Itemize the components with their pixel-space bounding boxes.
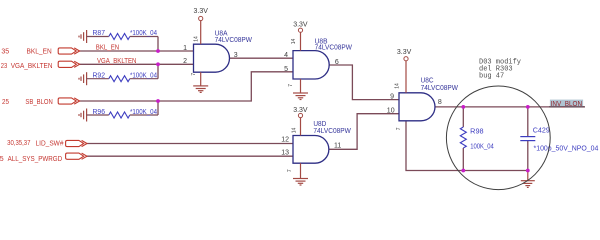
- port VGA_BKLTEN: [58, 61, 79, 67]
- port LID_SW#: [66, 140, 87, 146]
- svg-text:INV_BLON: INV_BLON: [551, 101, 583, 108]
- wire SB_BLON net to U8B pin5: [79, 72, 294, 101]
- svg-text:*100p_50V_NPO_04: *100p_50V_NPO_04: [534, 145, 599, 152]
- ground under C429: [521, 171, 535, 188]
- svg-text:U8D: U8D: [313, 121, 326, 128]
- svg-text:VGA_BKLTEN: VGA_BKLTEN: [11, 63, 53, 70]
- wire VGA_BKLTEN net: [79, 63, 194, 65]
- svg-text:3.3V: 3.3V: [194, 8, 209, 15]
- capacitor C429: [520, 137, 535, 141]
- svg-text:10: 10: [387, 107, 395, 114]
- wire U8C out to INV_BLON: [435, 106, 585, 108]
- svg-text:14: 14: [292, 128, 298, 134]
- svg-text:5: 5: [284, 66, 288, 73]
- svg-text:3.3V: 3.3V: [293, 22, 308, 29]
- wire R96 to SB_BLON: [157, 101, 159, 115]
- svg-text:9: 9: [390, 93, 394, 100]
- svg-text:7: 7: [396, 127, 402, 130]
- svg-text:7: 7: [287, 169, 293, 172]
- svg-text:35: 35: [1, 48, 9, 55]
- svg-text:R92: R92: [93, 72, 106, 79]
- wire ALL_SYS_PWRGD net to U8D pin13: [86, 155, 293, 157]
- svg-text:7: 7: [288, 84, 294, 87]
- svg-text:3.3V: 3.3V: [293, 107, 308, 114]
- svg-text:6: 6: [335, 59, 339, 66]
- ground (left-pointing) for R96: [79, 109, 87, 122]
- junction node C429 top: [526, 105, 530, 109]
- svg-text:VGA_BKLTEN: VGA_BKLTEN: [97, 58, 136, 65]
- svg-text:74LVC08PW: 74LVC08PW: [421, 85, 459, 92]
- wire C429 bottom lead: [527, 141, 529, 171]
- svg-text:1: 1: [183, 45, 187, 52]
- svg-text:R96: R96: [93, 109, 106, 116]
- wire U8D out to U8C pin10: [329, 114, 399, 150]
- wire LID_SW# net to U8D pin12: [86, 143, 293, 145]
- junction node R98 top: [461, 105, 465, 109]
- 3.3V power U8C: [405, 61, 407, 93]
- ground (left-pointing) for R92: [79, 72, 87, 85]
- AND gate U8B 74LVC08PW: [293, 51, 329, 79]
- svg-text:C429: C429: [533, 127, 550, 134]
- svg-text:7: 7: [191, 73, 197, 76]
- 3.3V power U8A: [200, 21, 202, 45]
- svg-text:11: 11: [334, 143, 341, 150]
- svg-text:14: 14: [194, 36, 200, 42]
- svg-text:100K_04: 100K_04: [470, 144, 494, 151]
- svg-text:R98: R98: [470, 129, 484, 136]
- 3.3V power U8D: [300, 118, 302, 136]
- port SB_BLON: [58, 98, 79, 104]
- AND gate U8C 74LVC08PW: [399, 93, 435, 121]
- svg-text:BKL_EN: BKL_EN: [96, 44, 119, 51]
- ground U8D: [293, 163, 308, 185]
- svg-text:8: 8: [438, 99, 442, 106]
- resistor R92: [87, 78, 109, 80]
- svg-text:3: 3: [234, 52, 238, 59]
- svg-text:23: 23: [1, 63, 8, 70]
- svg-text:14: 14: [395, 83, 401, 89]
- junction node R92/VGA_BKLTEN: [156, 62, 160, 66]
- svg-text:*100K_04: *100K_04: [130, 72, 157, 79]
- wire R92 to VGA_BKLTEN: [157, 64, 159, 78]
- junction node R96/SB_BLON: [156, 99, 160, 103]
- wire R98 top lead: [462, 107, 464, 127]
- svg-text:13: 13: [281, 149, 289, 156]
- AND gate U8D 74LVC08PW: [293, 136, 329, 164]
- wire R87 to BKL_EN: [157, 37, 159, 52]
- svg-text:*100K_04: *100K_04: [130, 109, 157, 116]
- svg-text:U8C: U8C: [421, 77, 434, 84]
- resistor R87: [87, 36, 109, 38]
- resistor R98 (vertical): [460, 127, 466, 148]
- port ALL_SYS_PWRGD: [66, 153, 87, 159]
- ground U8B: [293, 79, 308, 100]
- svg-text:30,35,37: 30,35,37: [7, 140, 30, 147]
- net label INV_BLON: [550, 100, 583, 107]
- svg-text:bug 47: bug 47: [479, 72, 504, 80]
- svg-text:12: 12: [281, 137, 289, 144]
- ground (left-pointing) for R87: [79, 30, 87, 43]
- svg-text:R87: R87: [93, 30, 106, 37]
- svg-text:74LVC08PW: 74LVC08PW: [313, 128, 351, 135]
- svg-text:15: 15: [0, 156, 4, 163]
- junction node R87/BKL_EN: [156, 49, 160, 53]
- svg-text:SB_BLON: SB_BLON: [25, 99, 52, 106]
- svg-text:25: 25: [2, 99, 9, 106]
- svg-text:BKL_EN: BKL_EN: [27, 49, 52, 56]
- svg-text:4: 4: [284, 52, 288, 59]
- svg-text:ALL_SYS_PWRGD: ALL_SYS_PWRGD: [8, 156, 63, 163]
- junction node R98 bottom: [461, 169, 465, 173]
- wire C429 top lead: [527, 107, 529, 137]
- svg-text:2: 2: [183, 58, 187, 65]
- annotation ellipse: [446, 86, 550, 190]
- 3.3V power U8B: [300, 32, 302, 50]
- svg-text:LID_SW#: LID_SW#: [36, 140, 64, 147]
- svg-text:14: 14: [291, 39, 297, 45]
- AND gate U8A 74LVC08PW: [194, 44, 230, 72]
- wire U8B out to U8C pin9: [329, 65, 399, 100]
- resistor R96: [87, 114, 109, 116]
- junction node C429 bottom: [526, 169, 530, 173]
- svg-text:3.3V: 3.3V: [397, 49, 412, 56]
- svg-text:74LVC08PW: 74LVC08PW: [215, 37, 253, 44]
- wire BKL_EN net: [79, 50, 194, 52]
- wire U8A out to U8B pin4: [230, 57, 294, 59]
- port BKL_EN: [58, 48, 79, 54]
- wire U8C pin7 to ground run: [406, 121, 528, 171]
- svg-text:*100K_04: *100K_04: [130, 30, 157, 37]
- svg-text:74LVC08PW: 74LVC08PW: [315, 45, 353, 52]
- wire R98 bottom lead: [462, 148, 464, 171]
- ground U8A: [193, 72, 208, 92]
